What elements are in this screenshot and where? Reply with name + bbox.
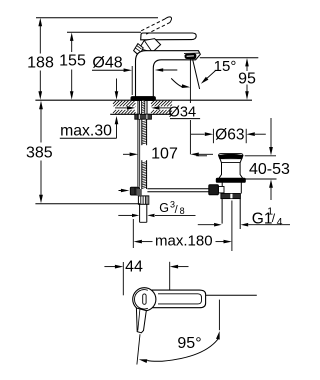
extension line for diameter 48: [131, 66, 133, 95]
leader arrow to spout inner edge: [161, 69, 177, 71]
dimension 44 left extension line: [122, 262, 124, 295]
svg-text:95: 95: [238, 71, 256, 88]
supply pipe lower end: [139, 205, 141, 223]
vertical extension at handle tip: [218, 300, 220, 331]
dimension 188 extension line (top): [36, 17, 158, 19]
dimension 40-53: [270, 118, 272, 147]
faucet base plate (dark): [131, 97, 155, 101]
top view handle bar: [152, 290, 206, 308]
faucet body and spout outline: [136, 51, 201, 97]
countertop bottom surface line: [110, 113, 172, 115]
svg-text:4: 4: [277, 216, 283, 228]
pull rod clamp block: [130, 187, 139, 195]
dimension 95: [246, 62, 248, 72]
faucet lever joint: [139, 39, 160, 53]
dimension 40-53 top extension line: [196, 155, 207, 157]
dimension 44: [104, 266, 115, 268]
waste tailpipe: [221, 199, 223, 224]
countertop hatching upper-left strip: [113, 101, 116, 104]
pop-up waste dome dark rim: [219, 154, 243, 158]
waste side knob: [218, 187, 224, 193]
dimension G3/8 (pipe thread diameter): [118, 214, 132, 216]
countertop hatching lower-left strip: [113, 110, 116, 113]
svg-text:Ø63: Ø63: [215, 126, 244, 143]
spout aerator (dark): [185, 54, 196, 59]
horizontal reference line from handle bar: [206, 294, 257, 296]
svg-text:max.30: max.30: [60, 122, 112, 139]
dimension 40-53 bottom extension line: [245, 178, 277, 180]
horizontal pop-up linkage rod: [147, 188, 209, 190]
vertical reference line from spout outlet: [189, 59, 191, 103]
rotated lever axis extension line: [137, 334, 140, 364]
mounting shank below faucet: [138, 100, 140, 114]
waste upper body: [219, 159, 243, 179]
countertop hatching upper-right strip: [150, 100, 152, 102]
countertop top surface line: [35, 99, 252, 101]
supply pipe threaded section (upper): [141, 119, 143, 145]
pop-up pull rod: [137, 100, 139, 186]
svg-text:188: 188: [27, 55, 54, 72]
svg-text:max.180: max.180: [155, 233, 213, 250]
svg-text:8: 8: [180, 206, 185, 216]
spout tip facet line: [184, 52, 199, 54]
countertop hatching lower-right strip: [150, 109, 152, 111]
waste flange (dark): [216, 178, 245, 182]
dimension diameter 63: [191, 133, 205, 135]
dimension G1 1/4 (tailpipe thread diameter): [198, 224, 214, 226]
svg-text:95°: 95°: [177, 335, 201, 352]
max.30 upper arrow (to countertop surface): [116, 79, 118, 93]
angle 15 deg arc: [171, 78, 183, 87]
water stream line: [193, 59, 200, 89]
pop-up waste plug dome outline: [219, 154, 243, 156]
svg-text:G: G: [159, 201, 169, 215]
svg-text:107: 107: [151, 146, 178, 163]
svg-text:385: 385: [26, 145, 53, 162]
dimension 155 extension line (top): [67, 31, 141, 33]
faucet lever rear wedge: [134, 44, 144, 56]
dimension 95 top extension line: [200, 57, 258, 59]
svg-text:155: 155: [59, 53, 86, 70]
faucet lever handle (horizontal position): [141, 33, 197, 40]
dimension 385: [40, 104, 42, 143]
top view rotated lever (95 deg position): [136, 308, 146, 333]
dimension 155: [71, 36, 73, 53]
svg-text:Ø48: Ø48: [92, 55, 122, 72]
waste lower body: [221, 182, 223, 193]
faucet lever raised position (dashed): [141, 19, 165, 31]
leader arrow to pull rod clamp: [119, 190, 124, 192]
svg-text:15°: 15°: [214, 58, 237, 75]
dimension max.180: [132, 219, 134, 248]
supply pipe G3/8 connector block: [138, 196, 148, 204]
mounting nut: [135, 114, 152, 119]
dimension 385 bottom extension line: [35, 203, 140, 205]
waste locking nut: [221, 194, 241, 199]
angle 95 deg arc: [147, 338, 219, 362]
svg-text:40-53: 40-53: [249, 161, 290, 178]
dimension 188: [39, 21, 41, 54]
top view pivot circle: [133, 288, 156, 311]
svg-text:Ø34: Ø34: [169, 104, 197, 120]
top view pivot slot: [143, 294, 146, 304]
svg-text:44: 44: [125, 259, 143, 276]
dimension diameter 34 arrows in counter hole: [115, 107, 127, 109]
dimension 44 right extension line: [169, 262, 171, 290]
supply pipe threaded section (lower): [141, 160, 143, 189]
